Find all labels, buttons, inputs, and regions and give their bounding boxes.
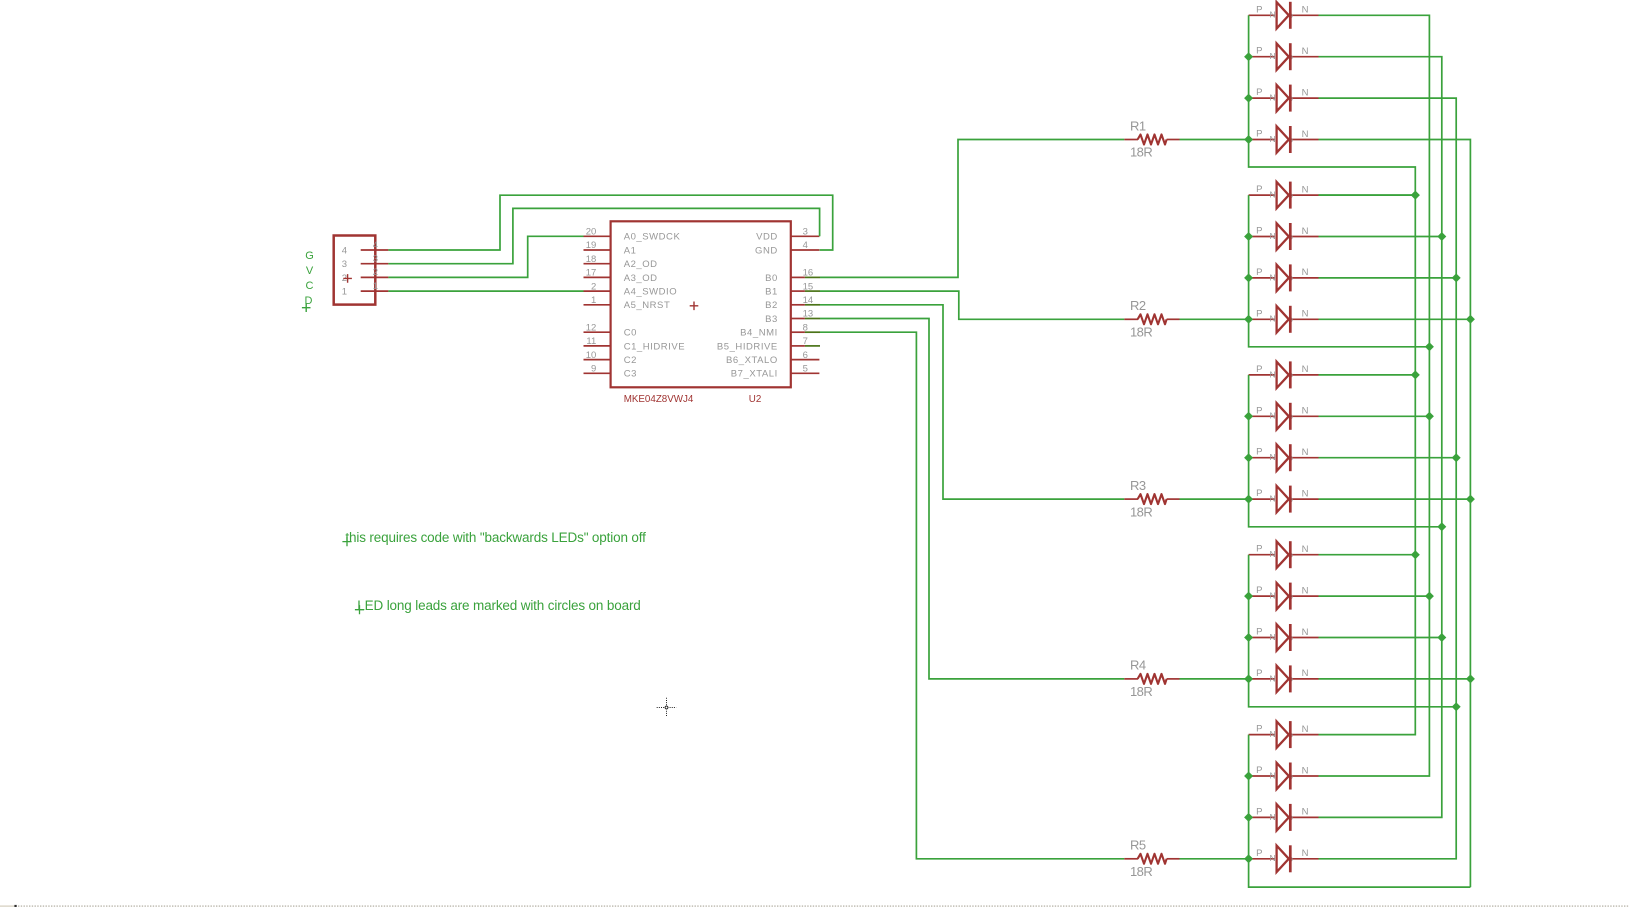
wire net B3 vertical (from LED3 N) xyxy=(1319,98,1457,859)
svg-text:A5_NRST: A5_NRST xyxy=(624,300,671,311)
svg-text:2: 2 xyxy=(373,267,378,278)
svg-text:R3: R3 xyxy=(1130,478,1146,493)
wire VCC : J1 pin3 to U2 VDD xyxy=(388,208,819,263)
svg-text:1: 1 xyxy=(591,295,596,306)
wire LED11 N to net B3 xyxy=(1319,457,1457,459)
svg-text:15: 15 xyxy=(803,281,814,292)
svg-text:A0_SWDCK: A0_SWDCK xyxy=(624,232,681,243)
junction B0 xyxy=(1411,370,1420,379)
wire LED8 N to net B4 xyxy=(1319,318,1471,320)
wire net B1 vertical (from LED1 N) xyxy=(1319,15,1430,776)
LED 1 (group 1 pos 1) xyxy=(1249,2,1319,29)
svg-text:16: 16 xyxy=(803,268,814,279)
wire SWDIO : J1 pin1 to U2 A4_SWDIO xyxy=(388,290,583,292)
svg-text:4: 4 xyxy=(803,240,808,251)
J1 pin 2 stub xyxy=(361,276,389,278)
svg-text:1: 1 xyxy=(342,287,347,298)
U2 pin 19 (A1) xyxy=(584,249,611,251)
svg-text:3: 3 xyxy=(803,227,808,238)
LED 8 (group 2 pos 4) xyxy=(1249,306,1319,333)
wire net B0 : U2 pin to R1 xyxy=(820,140,1124,278)
svg-text:8: 8 xyxy=(803,322,808,333)
wire LED13 N to net B0 xyxy=(1319,554,1416,556)
svg-text:R5: R5 xyxy=(1130,838,1146,853)
wire net B4 vertical (from LED4 N) xyxy=(1319,140,1471,888)
junction extension group 2 on B1 xyxy=(1425,342,1434,351)
wire R3 to LED bus xyxy=(1180,498,1249,500)
junction P bus group 2 xyxy=(1244,232,1253,241)
junction P bus group 5 xyxy=(1244,854,1253,863)
junction P bus group 5 xyxy=(1244,813,1253,822)
svg-text:10: 10 xyxy=(586,350,597,361)
junction P bus group 1 xyxy=(1244,135,1253,144)
junction P bus group 3 xyxy=(1244,412,1253,421)
U2 pin 14 (B2) xyxy=(791,304,805,306)
LED 19 (group 5 pos 3) xyxy=(1249,804,1319,831)
wire LED5 N to net B0 xyxy=(1319,194,1416,196)
LED 4 (group 1 pos 4) xyxy=(1249,126,1319,153)
LED 10 (group 3 pos 2) xyxy=(1249,403,1319,430)
wire R1 to LED bus xyxy=(1180,139,1249,141)
wire R2 to LED bus xyxy=(1180,318,1249,320)
junction B0 xyxy=(1411,550,1420,559)
junction P bus group 1 xyxy=(1244,94,1253,103)
LED 6 (group 2 pos 2) xyxy=(1249,223,1319,250)
wire net B2 : U2 pin to R3 xyxy=(820,305,1124,499)
U2 pin 6 (B6_XTALO) xyxy=(791,359,820,361)
junction extension group 4 on B3 xyxy=(1452,702,1461,711)
svg-text:18R: 18R xyxy=(1130,504,1152,519)
svg-text:R4: R4 xyxy=(1130,658,1146,673)
svg-text:VDD: VDD xyxy=(756,232,778,243)
junction B2 xyxy=(1437,232,1446,241)
U2 pin 10 (C2) xyxy=(584,359,611,361)
svg-text:B6_XTALO: B6_XTALO xyxy=(726,355,778,366)
junction P bus group 4 xyxy=(1244,674,1253,683)
svg-text:18R: 18R xyxy=(1130,864,1152,879)
junction B1 xyxy=(1425,412,1434,421)
svg-text:12: 12 xyxy=(586,322,597,333)
U2 pin 18 (A2_OD) xyxy=(584,263,611,265)
svg-text:9: 9 xyxy=(591,364,596,375)
annotation 1 origin cross xyxy=(342,537,351,546)
svg-text:A3_OD: A3_OD xyxy=(624,273,658,284)
svg-text:18R: 18R xyxy=(1130,145,1152,160)
wire LED14 N to net B1 xyxy=(1319,595,1430,597)
U2 pin 15 (B1) xyxy=(791,290,805,292)
wire P bus group 5 + extension xyxy=(1249,735,1471,888)
svg-text:V: V xyxy=(306,265,314,277)
svg-text:2: 2 xyxy=(591,281,596,292)
wire P bus group 3 + extension xyxy=(1249,375,1442,527)
connector J1 xyxy=(334,236,389,305)
svg-text:U2: U2 xyxy=(749,394,762,405)
annotation 2 origin cross xyxy=(355,605,364,614)
junction P bus group 3 xyxy=(1244,453,1253,462)
svg-text:B5_HIDRIVE: B5_HIDRIVE xyxy=(717,341,778,352)
LED 15 (group 4 pos 3) xyxy=(1249,624,1319,651)
LED 11 (group 3 pos 3) xyxy=(1249,444,1319,471)
U2 pin 17 (A3_OD) xyxy=(584,276,611,278)
wire LED12 N to net B4 xyxy=(1319,498,1471,500)
U2 pin 16 connection tip xyxy=(805,276,820,278)
svg-text:5: 5 xyxy=(803,364,808,375)
wire P bus group 2 + extension xyxy=(1249,195,1430,347)
svg-text:4: 4 xyxy=(342,245,347,256)
wire net B3 : U2 pin to R4 xyxy=(820,319,1124,679)
resistor R5 xyxy=(1124,854,1179,864)
junction P bus group 2 xyxy=(1244,315,1253,324)
svg-text:18R: 18R xyxy=(1130,325,1152,340)
svg-text:6: 6 xyxy=(803,350,808,361)
frame left tick xyxy=(0,905,14,907)
junction P bus group 5 xyxy=(1244,772,1253,781)
svg-text:11: 11 xyxy=(586,336,596,347)
svg-text:13: 13 xyxy=(803,309,814,320)
J1 pin 4 stub xyxy=(361,249,389,251)
svg-text:C2: C2 xyxy=(624,355,637,366)
svg-text:B7_XTALI: B7_XTALI xyxy=(731,369,778,380)
IC U2 MKE04Z8VWJ4 xyxy=(584,221,821,405)
U2 pin 15 connection tip xyxy=(805,290,820,292)
wire P bus group 4 + extension xyxy=(1249,555,1457,707)
junction B0 at LED5 xyxy=(1411,191,1420,200)
resistor R1 xyxy=(1124,135,1179,145)
junction B2 xyxy=(1437,633,1446,642)
U2 pin 8 connection tip xyxy=(805,331,820,333)
svg-text:20: 20 xyxy=(586,227,597,238)
U2 pin 16 (B0) xyxy=(791,276,805,278)
wire LED9 N to net B0 xyxy=(1319,374,1416,376)
LED 9 (group 3 pos 1) xyxy=(1249,361,1319,388)
wire SWDCK : J1 pin2 to U2 A0_SWDCK xyxy=(388,236,583,277)
junction P bus group 3 xyxy=(1244,495,1253,504)
LED 2 (group 1 pos 2) xyxy=(1249,43,1319,70)
U2 pin 14 connection tip xyxy=(805,304,820,306)
junction B3 xyxy=(1452,273,1461,282)
junction B4 xyxy=(1466,495,1475,504)
LED 16 (group 4 pos 4) xyxy=(1249,665,1319,692)
U2 origin cross xyxy=(690,302,699,311)
U2 pin 1 (A5_NRST) xyxy=(584,304,611,306)
junction B4 xyxy=(1466,315,1475,324)
LED 5 (group 2 pos 1) xyxy=(1249,182,1319,209)
svg-text:C0: C0 xyxy=(624,328,637,339)
svg-text:B4_NMI: B4_NMI xyxy=(740,328,778,339)
LED 3 (group 1 pos 3) xyxy=(1249,85,1319,112)
J1 pin 1 stub xyxy=(361,290,389,292)
svg-text:A2_OD: A2_OD xyxy=(624,259,658,270)
wire net B4 : U2 pin to R5 xyxy=(820,332,1124,859)
U2 pin 8 (B4_NMI) xyxy=(791,331,805,333)
wire LED5 N to net B0 xyxy=(1319,194,1416,196)
svg-text:14: 14 xyxy=(803,295,814,306)
junction P bus group 4 xyxy=(1244,633,1253,642)
U2 pin 12 (C0) xyxy=(584,331,611,333)
svg-text:LED long leads are marked with: LED long leads are marked with circles o… xyxy=(357,598,640,613)
svg-text:19: 19 xyxy=(586,240,597,251)
J1 pin 3 stub xyxy=(361,263,389,265)
junction B0 xyxy=(1411,191,1420,200)
U2 pin 7 connection tip xyxy=(805,345,820,347)
sheet boundary dotted line xyxy=(18,905,1629,907)
svg-text:18: 18 xyxy=(586,254,597,265)
LED 7 (group 2 pos 3) xyxy=(1249,264,1319,291)
svg-text:R1: R1 xyxy=(1130,118,1146,133)
LED 12 (group 3 pos 4) xyxy=(1249,486,1319,513)
svg-text:C: C xyxy=(306,280,314,292)
svg-text:C3: C3 xyxy=(624,369,637,380)
U2 pin 13 connection tip xyxy=(805,318,820,320)
svg-text:1: 1 xyxy=(373,281,378,292)
svg-text:C1_HIDRIVE: C1_HIDRIVE xyxy=(624,341,685,352)
junction P bus group 2 xyxy=(1244,273,1253,282)
svg-text:17: 17 xyxy=(586,268,597,279)
svg-text:4: 4 xyxy=(373,240,378,251)
junction P bus group 1 xyxy=(1244,52,1253,61)
LED 18 (group 5 pos 2) xyxy=(1249,763,1319,790)
LED 20 (group 5 pos 4) xyxy=(1249,845,1319,872)
svg-text:this requires code with "backw: this requires code with "backwards LEDs"… xyxy=(345,530,646,545)
wire LED16 N to net B4 xyxy=(1319,678,1471,680)
svg-text:B3: B3 xyxy=(765,314,778,325)
wire R5 to LED bus xyxy=(1180,858,1249,860)
junction B3 xyxy=(1452,453,1461,462)
cursor crosshair xyxy=(657,698,677,717)
junction B4 xyxy=(1466,674,1475,683)
LED 17 (group 5 pos 1) xyxy=(1249,721,1319,748)
LED 13 (group 4 pos 1) xyxy=(1249,541,1319,568)
svg-text:3: 3 xyxy=(342,259,347,270)
U2 pin 13 (B3) xyxy=(791,318,805,320)
label origin cross xyxy=(302,303,311,312)
wire R4 to LED bus xyxy=(1180,678,1249,680)
wire net B2 vertical (from LED2 N) xyxy=(1319,57,1442,818)
U2 pin 9 (C3) xyxy=(584,372,611,374)
U2 pin 4 (GND) xyxy=(791,249,820,251)
svg-text:R2: R2 xyxy=(1130,298,1146,313)
junction extension group 3 on B2 xyxy=(1437,522,1446,531)
wire net B0 vertical xyxy=(1319,195,1416,735)
junction B1 xyxy=(1425,592,1434,601)
wire net B1 : U2 pin to R2 xyxy=(820,291,1124,319)
U2 pin 3 (VDD) xyxy=(791,235,820,237)
LED 14 (group 4 pos 2) xyxy=(1249,583,1319,610)
svg-text:A1: A1 xyxy=(624,245,637,256)
junction P bus group 4 xyxy=(1244,592,1253,601)
J1 origin cross xyxy=(343,274,352,283)
U2 pin 5 (B7_XTALI) xyxy=(791,372,820,374)
svg-text:3: 3 xyxy=(373,254,378,265)
svg-text:B0: B0 xyxy=(765,273,778,284)
resistor R2 xyxy=(1124,314,1179,324)
wire LED15 N to net B2 xyxy=(1319,637,1442,639)
wire GND : J1 pin4 to U2 GND xyxy=(388,195,832,250)
svg-text:A4_SWDIO: A4_SWDIO xyxy=(624,287,678,298)
resistor R3 xyxy=(1124,494,1179,504)
U2 pin 2 (A4_SWDIO) xyxy=(584,290,611,292)
svg-text:B1: B1 xyxy=(765,287,778,298)
svg-text:7: 7 xyxy=(803,336,808,347)
wire LED10 N to net B1 xyxy=(1319,415,1430,417)
svg-text:GND: GND xyxy=(755,245,778,256)
U2 pin 7 (B5_HIDRIVE) xyxy=(791,345,805,347)
svg-text:B2: B2 xyxy=(765,300,778,311)
wire LED6 N to net B2 xyxy=(1319,236,1442,238)
wire LED7 N to net B3 xyxy=(1319,277,1457,279)
U2 pin 20 (A0_SWDCK) xyxy=(584,235,611,237)
svg-text:G: G xyxy=(305,250,314,262)
wire P bus group 1 + extension xyxy=(1249,15,1416,195)
resistor R4 xyxy=(1124,674,1179,684)
U2 pin 11 (C1_HIDRIVE) xyxy=(584,345,611,347)
svg-text:18R: 18R xyxy=(1130,684,1152,699)
svg-text:MKE04Z8VWJ4: MKE04Z8VWJ4 xyxy=(624,394,694,405)
